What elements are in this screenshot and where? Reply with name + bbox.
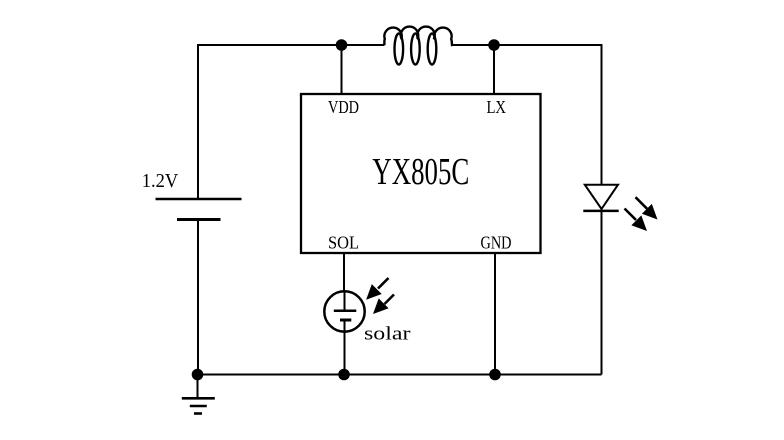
solar cell PV1 bottom lead <box>344 320 346 375</box>
wire left vertical (battery bottom lead) <box>197 220 199 375</box>
LED D1 light arrow upper <box>636 197 658 219</box>
svg-text:1.2V: 1.2V <box>142 170 179 192</box>
wire SOL pin <box>343 253 345 292</box>
LED D1 light arrow lower <box>625 209 648 232</box>
LED D1 cathode bar <box>583 210 618 213</box>
wire right vertical (LED anode lead) <box>601 44 603 185</box>
wire VDD pin <box>341 45 343 94</box>
solar cell PV1 light arrow upper <box>366 278 388 300</box>
ground symbol bar 1 <box>182 397 215 400</box>
solar cell PV1 internal top lead <box>344 292 346 311</box>
IC U1 YX805C body <box>301 94 541 253</box>
ground symbol bar 3 <box>194 412 202 415</box>
svg-text:GND: GND <box>481 233 512 253</box>
solar cell PV1 long plate <box>334 310 357 313</box>
svg-text:solar: solar <box>364 324 411 345</box>
wire top rail right segment <box>453 44 602 46</box>
node junction dot bottom solar <box>338 369 350 381</box>
wire LX pin <box>493 45 495 94</box>
ground symbol bar 2 <box>190 405 207 408</box>
ground symbol stub <box>197 375 199 399</box>
svg-text:LX: LX <box>487 97 507 117</box>
battery BT1 negative plate <box>177 218 221 221</box>
wire left vertical (battery top lead) <box>197 44 199 199</box>
solar cell PV1 short plate <box>340 319 351 322</box>
inductor L1 <box>384 27 452 45</box>
svg-text:YX805C: YX805C <box>372 151 469 193</box>
wire bottom rail <box>198 374 602 376</box>
wire GND pin <box>494 253 496 375</box>
solar cell PV1 light arrow lower <box>373 295 394 315</box>
LED D1 triangle <box>585 185 618 209</box>
node junction dot bottom GND <box>489 369 501 381</box>
wire right vertical (LED cathode lead) <box>601 210 603 375</box>
node junction dot bottom ground <box>192 369 204 381</box>
wire top rail left segment <box>198 44 385 46</box>
svg-text:VDD: VDD <box>328 97 359 117</box>
svg-text:SOL: SOL <box>328 233 359 253</box>
battery BT1 positive plate <box>156 198 242 201</box>
node junction dot top LX <box>488 39 500 51</box>
solar cell PV1 circle <box>324 291 364 331</box>
node junction dot top VDD <box>336 39 348 51</box>
